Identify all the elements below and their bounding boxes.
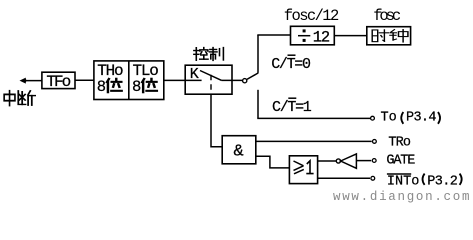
wire INT0 line: [318, 177, 370, 179]
位 left: [107, 79, 122, 92]
switch wiper: [200, 71, 242, 81]
svg-text:www.diangon.com: www.diangon.com: [333, 190, 470, 204]
svg-text:To: To: [381, 111, 397, 126]
wire AND to OR: [256, 156, 290, 168]
arrow to interrupt: [20, 78, 42, 84]
svg-text:K: K: [190, 66, 199, 83]
svg-text:12: 12: [313, 28, 331, 46]
wire divider-clock: [334, 35, 367, 37]
label 中断 (interrupt): [4, 91, 35, 106]
box clock 时钟: [367, 27, 411, 45]
svg-text:P3.4: P3.4: [406, 111, 437, 126]
box TH0/TL0: [94, 61, 164, 100]
AND gate &: [222, 136, 256, 164]
svg-text:TRo: TRo: [388, 136, 411, 151]
svg-text:INTo: INTo: [387, 174, 419, 189]
wire TR0 line: [256, 140, 372, 142]
wire OR to inverter: [318, 160, 337, 162]
box K (control switch): [185, 65, 232, 94]
switch throw to C/T=0: [247, 73, 258, 80]
inverter U1: [341, 154, 357, 168]
制: [209, 48, 223, 61]
控: [194, 48, 208, 61]
svg-text:fosc: fosc: [373, 7, 401, 25]
label C/T=1: [272, 98, 312, 116]
box divide-by-12: [291, 26, 335, 46]
box TF0: [42, 72, 75, 91]
switch pole node: [243, 79, 247, 83]
wire upper contact vertical: [257, 35, 259, 73]
svg-text:C/T=0: C/T=0: [271, 56, 311, 73]
钟: [390, 30, 408, 42]
dashed control line in K: [210, 75, 212, 94]
wire AND to switch: [211, 94, 222, 147]
wire TF0-TH0: [75, 79, 94, 81]
svg-text:8: 8: [132, 78, 141, 96]
svg-text:8: 8: [97, 78, 106, 96]
wire lower contact vertical: [257, 90, 259, 119]
wire TL0-K: [164, 79, 202, 81]
wire to T0 pin: [257, 117, 370, 119]
位 right: [142, 79, 157, 92]
svg-text:C/T=1: C/T=1: [272, 99, 312, 116]
断: [18, 91, 35, 105]
时: [372, 30, 388, 42]
svg-text:&: &: [234, 143, 244, 162]
OR gate >=1: [289, 156, 317, 184]
中: [4, 91, 15, 106]
svg-text:TFo: TFo: [46, 73, 71, 91]
svg-text:fosc/12: fosc/12: [284, 7, 340, 25]
svg-text:P3.2: P3.2: [427, 174, 458, 189]
label INT0 (P3.2) with overline: [387, 174, 462, 190]
label 控制 (control): [194, 48, 224, 61]
node T0: [371, 116, 375, 120]
label C/T=0: [271, 55, 311, 73]
wire inverter to GATE: [356, 160, 371, 162]
wire to divider: [257, 34, 290, 36]
node TR0: [373, 140, 377, 144]
svg-text:GATE: GATE: [386, 154, 415, 169]
inverter bubble: [336, 159, 340, 163]
node GATE: [372, 159, 376, 163]
node INT0: [371, 176, 375, 180]
